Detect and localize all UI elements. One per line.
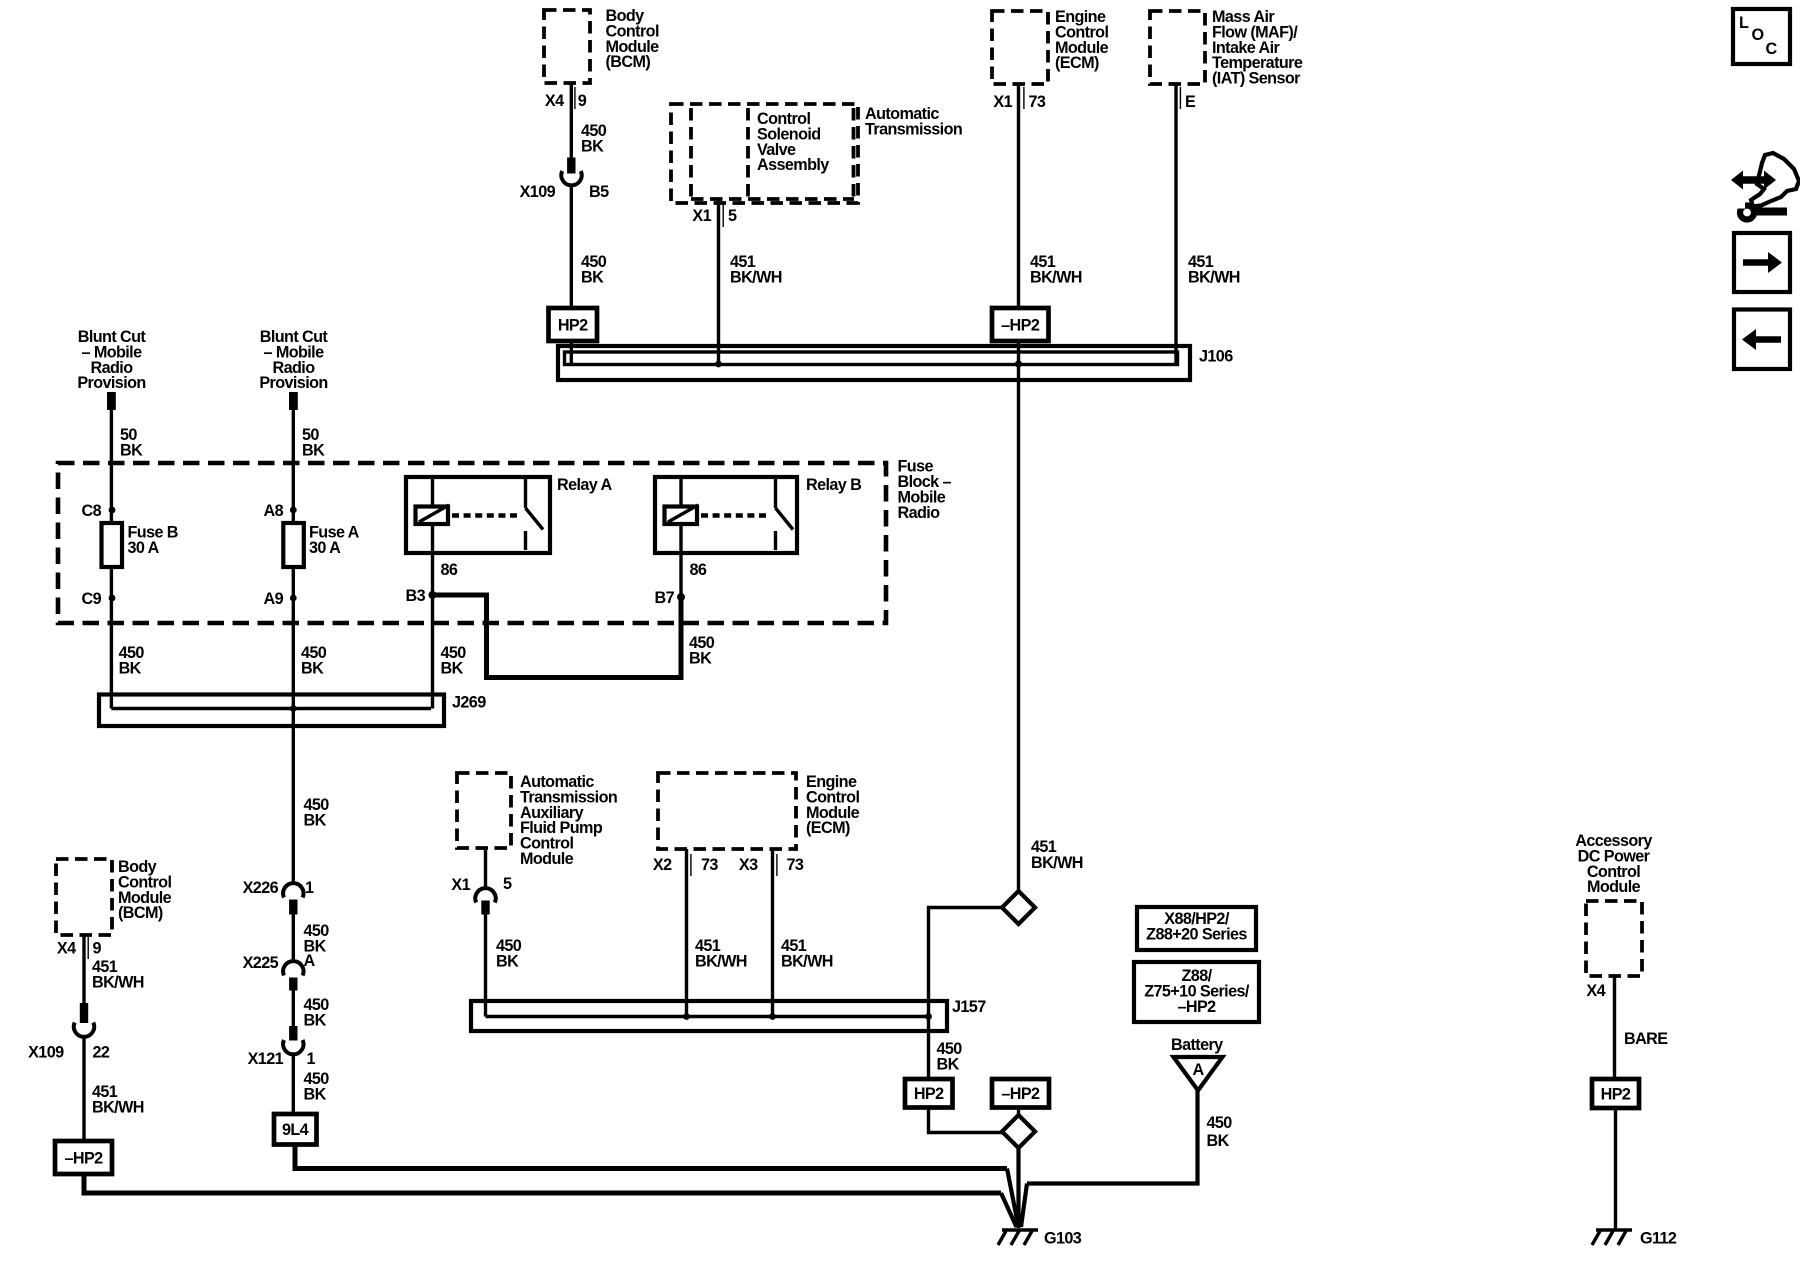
connector X1-5 fluid pump — [475, 848, 495, 915]
wire from HP2 into splice J106 — [570, 341, 573, 365]
svg-text:HP2: HP2 — [558, 317, 588, 335]
wire from -HP2 through J106 down to diamond — [1017, 341, 1020, 891]
module Automatic Transmission boundary — [671, 104, 962, 203]
svg-text:BK/WH: BK/WH — [781, 953, 833, 971]
svg-text:BK: BK — [441, 660, 464, 678]
svg-text:Transmission: Transmission — [865, 120, 962, 138]
svg-text:B3: B3 — [406, 587, 426, 605]
junction dot fuse A wire at J269 — [290, 705, 297, 712]
splice pack J269 — [99, 694, 486, 727]
wire branch B3 to B7 — [433, 595, 682, 678]
wire 451 BK/WH from solenoid X1-5 to J106 — [719, 199, 782, 365]
wire BARE accessory module to HP2 — [1615, 976, 1669, 1079]
terminal box HP2 right — [1592, 1079, 1639, 1108]
svg-text:A: A — [304, 952, 316, 970]
svg-text:(BCM): (BCM) — [118, 904, 163, 922]
svg-text:–HP2: –HP2 — [1001, 1085, 1040, 1103]
svg-text:(IAT) Sensor: (IAT) Sensor — [1212, 70, 1301, 88]
splice pack J106 — [558, 346, 1233, 380]
node A9 — [264, 590, 297, 608]
legend box L O C — [1733, 9, 1790, 64]
wire 9L4 to ground G103 run — [295, 1145, 1007, 1169]
module Body Control Module (BCM) bottom — [56, 858, 172, 935]
svg-text:1: 1 — [307, 1050, 316, 1068]
module Body Control Module (BCM) top — [544, 7, 659, 83]
svg-text:–HP2: –HP2 — [1177, 998, 1216, 1016]
icon connector repair (arrow outline, double arrow, wrench) — [1731, 153, 1799, 220]
label box Z88/Z75+10 Series/-HP2 — [1134, 962, 1259, 1022]
terminal box HP2 top — [549, 308, 598, 341]
junction dot X3 wire at J157 — [769, 1013, 776, 1020]
wire 450 BK X121 to 9L4 — [293, 1054, 329, 1115]
ground G112 — [1592, 1230, 1677, 1248]
wire HP2 to lower diamond — [929, 1108, 1003, 1133]
svg-text:BK: BK — [301, 660, 324, 678]
svg-text:BK/WH: BK/WH — [1030, 269, 1082, 287]
module Engine Control Module (ECM) bottom — [658, 773, 860, 849]
svg-text:BK/WH: BK/WH — [92, 974, 144, 992]
svg-text:C8: C8 — [82, 502, 102, 520]
pin X2 73 of ECM — [653, 854, 719, 876]
node C9 — [82, 590, 116, 608]
wire 450 BK from BCM X4-9 to X109 — [571, 83, 607, 158]
svg-text:J157: J157 — [952, 998, 986, 1016]
svg-text:BK/WH: BK/WH — [92, 1099, 144, 1117]
svg-text:–HP2: –HP2 — [64, 1150, 103, 1168]
svg-text:Assembly: Assembly — [757, 156, 829, 174]
svg-text:X1: X1 — [692, 207, 711, 225]
wire slant from -HP2 run into G103 — [1001, 1193, 1017, 1227]
svg-text:Relay A: Relay A — [557, 476, 612, 494]
wire slant from 9L4 run into G103 — [1007, 1169, 1019, 1228]
svg-text:1: 1 — [305, 879, 314, 897]
svg-text:73: 73 — [787, 856, 804, 874]
wire fuse A through J269 down to X226 — [292, 567, 295, 884]
svg-text:HP2: HP2 — [914, 1085, 944, 1103]
svg-text:86: 86 — [441, 561, 458, 579]
node A8 — [264, 502, 297, 520]
wire fuse B to J269 — [110, 567, 113, 709]
wire -HP2 box to lower diamond — [1017, 1108, 1020, 1116]
fuse block mobile radio dashed boundary — [58, 458, 951, 624]
wire 50 BK blunt cut to C8 — [111, 410, 143, 523]
svg-text:A: A — [1192, 1061, 1204, 1079]
wire 450 BK J269 to X226 — [304, 796, 330, 830]
svg-text:(BCM): (BCM) — [606, 53, 651, 71]
connector X109 B5 — [520, 158, 609, 202]
svg-text:A9: A9 — [264, 590, 284, 608]
node diamond splice upper — [1002, 891, 1035, 924]
svg-text:BK/WH: BK/WH — [695, 953, 747, 971]
svg-text:BARE: BARE — [1624, 1030, 1668, 1048]
svg-text:Radio: Radio — [898, 504, 941, 522]
node B3 — [406, 587, 437, 605]
svg-text:E: E — [1185, 93, 1196, 111]
svg-text:9L4: 9L4 — [282, 1121, 309, 1139]
fuse B 30 A — [102, 523, 178, 567]
svg-text:G112: G112 — [1640, 1230, 1677, 1248]
svg-text:BK: BK — [937, 1056, 960, 1074]
terminal box -HP2 top — [992, 308, 1049, 341]
wire label 450 BK above HP2 — [937, 1040, 963, 1074]
splice pack J157 — [471, 998, 986, 1031]
wire branch diamond to J157 and HP2 — [929, 908, 1003, 1080]
node diamond splice lower — [1002, 1115, 1035, 1148]
svg-text:5: 5 — [503, 875, 512, 893]
node B7 — [655, 589, 686, 607]
pin X3 73 of ECM — [739, 854, 804, 876]
pin X4 9 of bottom BCM — [57, 937, 102, 959]
svg-text:G103: G103 — [1044, 1230, 1082, 1248]
svg-text:X226: X226 — [243, 879, 279, 897]
svg-text:BK: BK — [302, 442, 325, 460]
svg-text:Provision: Provision — [259, 374, 327, 392]
wire 450 BK X225 to X121 — [293, 991, 329, 1030]
label box X88/HP2/Z88+20 Series — [1137, 907, 1256, 950]
svg-text:BK: BK — [304, 812, 327, 830]
svg-text:X1: X1 — [993, 93, 1012, 111]
blunt cut mobile radio provision left — [77, 328, 146, 410]
wire -HP2 to ground G103 run — [84, 1174, 1001, 1193]
junction dot X2 wire at J157 — [683, 1013, 690, 1020]
module Engine Control Module (ECM) top — [992, 8, 1109, 84]
pin X1 73 of ECM — [993, 87, 1046, 111]
wire HP2 to ground G112 — [1614, 1108, 1617, 1230]
pin X4 9 of BCM — [545, 87, 587, 110]
svg-text:BK: BK — [304, 1012, 327, 1030]
svg-text:5: 5 — [728, 207, 737, 225]
svg-text:Module: Module — [520, 850, 574, 868]
wire 451 BK/WH from BCM X4-9 to X109 — [84, 935, 144, 1003]
junction dot ECM wire at J106 — [1015, 360, 1022, 367]
svg-text:Provision: Provision — [77, 374, 145, 392]
wire 451 BK/WH from X109 to -HP2 — [84, 1037, 144, 1142]
svg-text:HP2: HP2 — [1601, 1086, 1631, 1104]
wire 451 BK/WH from MAF E to J106 — [1176, 84, 1240, 365]
svg-text:C: C — [1766, 40, 1778, 58]
junction dot solenoid wire at J106 — [715, 361, 722, 368]
wire 451 BK/WH ECM X2-73 to J157 — [687, 849, 747, 1017]
svg-text:X1: X1 — [451, 876, 470, 894]
node C8 — [82, 502, 116, 520]
wire 50 BK blunt cut to A8 — [293, 410, 325, 523]
svg-text:BK: BK — [1207, 1132, 1230, 1150]
svg-text:450: 450 — [1207, 1114, 1233, 1132]
svg-text:BK/WH: BK/WH — [1031, 854, 1083, 872]
module Accessory DC Power Control Module — [1575, 832, 1652, 976]
icon arrow right box — [1734, 233, 1790, 292]
svg-text:BK/WH: BK/WH — [730, 269, 782, 287]
svg-text:–HP2: –HP2 — [1001, 317, 1040, 335]
svg-text:J106: J106 — [1199, 348, 1233, 366]
svg-text:L: L — [1739, 14, 1749, 32]
terminal box -HP2 bottom — [992, 1079, 1049, 1108]
battery feed symbol A — [1171, 1036, 1223, 1091]
svg-text:X4: X4 — [1586, 982, 1605, 1000]
wire lower diamond to ground G103 — [1016, 1148, 1020, 1228]
module Automatic Transmission Auxiliary Fluid Pump Control Module — [457, 773, 617, 868]
wire 450 BK X226 to X225 — [293, 915, 329, 963]
svg-text:22: 22 — [93, 1044, 110, 1062]
wire 451 BK/WH ECM X3-73 to J157 — [773, 849, 833, 1017]
connector X225 A — [243, 952, 316, 991]
pin E of MAF/IAT sensor — [1180, 87, 1196, 111]
wire relay B pin 86 to B7 — [681, 524, 707, 597]
svg-text:BK/WH: BK/WH — [1188, 269, 1240, 287]
svg-text:86: 86 — [690, 561, 707, 579]
terminal box 9L4 — [274, 1114, 317, 1145]
ground G103 — [998, 1230, 1082, 1248]
svg-text:O: O — [1752, 26, 1764, 44]
svg-text:X121: X121 — [248, 1050, 284, 1068]
svg-text:(ECM): (ECM) — [806, 819, 850, 837]
wire 450 BK fluid pump to J157 — [486, 915, 522, 1017]
blunt cut mobile radio provision right — [259, 328, 328, 410]
wire 450 BK battery to ground G103 — [1021, 1091, 1232, 1228]
svg-text:B5: B5 — [589, 183, 609, 201]
pin X1 5 of solenoid assembly — [692, 205, 737, 227]
svg-text:BK: BK — [119, 660, 142, 678]
svg-text:X3: X3 — [739, 856, 758, 874]
svg-text:Relay B: Relay B — [806, 476, 861, 494]
svg-text:BK: BK — [581, 269, 604, 287]
fuse A 30 A — [283, 523, 359, 567]
svg-text:9: 9 — [578, 92, 587, 110]
svg-text:A8: A8 — [264, 502, 284, 520]
svg-text:BK: BK — [304, 1086, 327, 1104]
svg-text:9: 9 — [93, 940, 102, 958]
svg-text:BK: BK — [496, 953, 519, 971]
relay B — [655, 476, 861, 553]
svg-text:Battery: Battery — [1171, 1036, 1223, 1054]
junction dot branch wire at J157 — [925, 1013, 932, 1020]
module Control Solenoid Valve Assembly — [691, 108, 854, 199]
wire relay A pin 86 to B3 and J269 — [433, 524, 458, 709]
svg-text:X4: X4 — [545, 92, 564, 110]
svg-text:73: 73 — [1029, 93, 1046, 111]
wire label 450 BK below B3 — [441, 644, 467, 678]
svg-text:30 A: 30 A — [309, 539, 341, 557]
wire label 451 BK/WH above diamond — [1031, 838, 1083, 872]
module Mass Air Flow (MAF) / Intake Air Temperature (IAT) Sensor — [1150, 8, 1303, 88]
svg-text:X109: X109 — [520, 183, 556, 201]
svg-text:Module: Module — [1587, 878, 1641, 896]
svg-text:(ECM): (ECM) — [1055, 54, 1099, 72]
pin X1 5 of fluid pump module — [451, 875, 512, 894]
wire label 450 BK below B7 — [689, 634, 715, 668]
relay A — [406, 476, 612, 553]
connector X121 1 — [248, 1026, 316, 1068]
svg-text:B7: B7 — [655, 589, 675, 607]
icon arrow left box — [1734, 310, 1790, 370]
svg-text:X4: X4 — [57, 940, 76, 958]
svg-text:73: 73 — [701, 856, 718, 874]
connector X109 22 — [28, 1003, 110, 1062]
svg-text:30 A: 30 A — [128, 539, 160, 557]
svg-text:J269: J269 — [452, 694, 486, 712]
terminal box HP2 bottom — [905, 1079, 953, 1108]
wire label 450 BK below fuse A — [301, 644, 327, 678]
svg-text:BK: BK — [689, 650, 712, 668]
svg-text:X2: X2 — [653, 856, 672, 874]
svg-text:BK: BK — [581, 138, 604, 156]
connector X226 1 — [243, 879, 314, 915]
svg-text:X225: X225 — [243, 954, 279, 972]
svg-text:Z88+20 Series: Z88+20 Series — [1146, 925, 1247, 943]
wire 450 BK from X109 to HP2 — [571, 186, 607, 309]
svg-text:X109: X109 — [28, 1044, 64, 1062]
wire 451 BK/WH from ECM X1-73 to -HP2 — [1019, 84, 1082, 308]
svg-text:BK: BK — [120, 442, 143, 460]
wire label 450 BK below fuse B — [119, 644, 145, 678]
svg-text:C9: C9 — [82, 590, 102, 608]
terminal box -HP2 bottom left — [55, 1141, 112, 1174]
